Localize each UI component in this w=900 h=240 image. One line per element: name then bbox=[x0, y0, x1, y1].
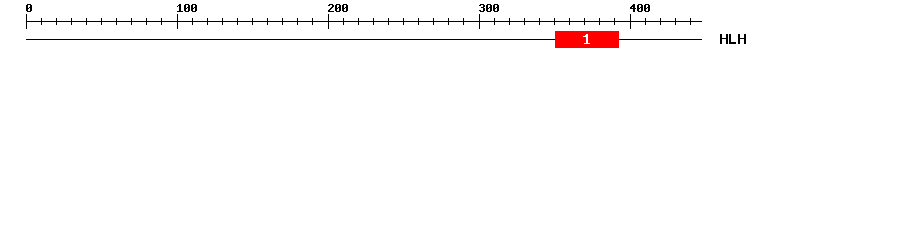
sequence name label HLH bbox=[720, 34, 746, 44]
ruler major ticks (0,100,200,300,400) bbox=[26, 14, 631, 29]
ruler minor ticks (every 10 aa) bbox=[41, 18, 691, 25]
ruler label 300 bbox=[479, 4, 499, 12]
ruler label 100 bbox=[177, 4, 197, 12]
ruler label 200 bbox=[328, 4, 348, 12]
protein backbone line (aa 1-447) bbox=[26, 39, 702, 40]
domain box 1 (red, aa ~351-392) bbox=[555, 31, 619, 48]
ruler line bbox=[26, 21, 702, 22]
domain number 1 (white) bbox=[583, 34, 590, 44]
ruler label 0 bbox=[26, 4, 32, 12]
ruler label 400 bbox=[630, 4, 650, 12]
